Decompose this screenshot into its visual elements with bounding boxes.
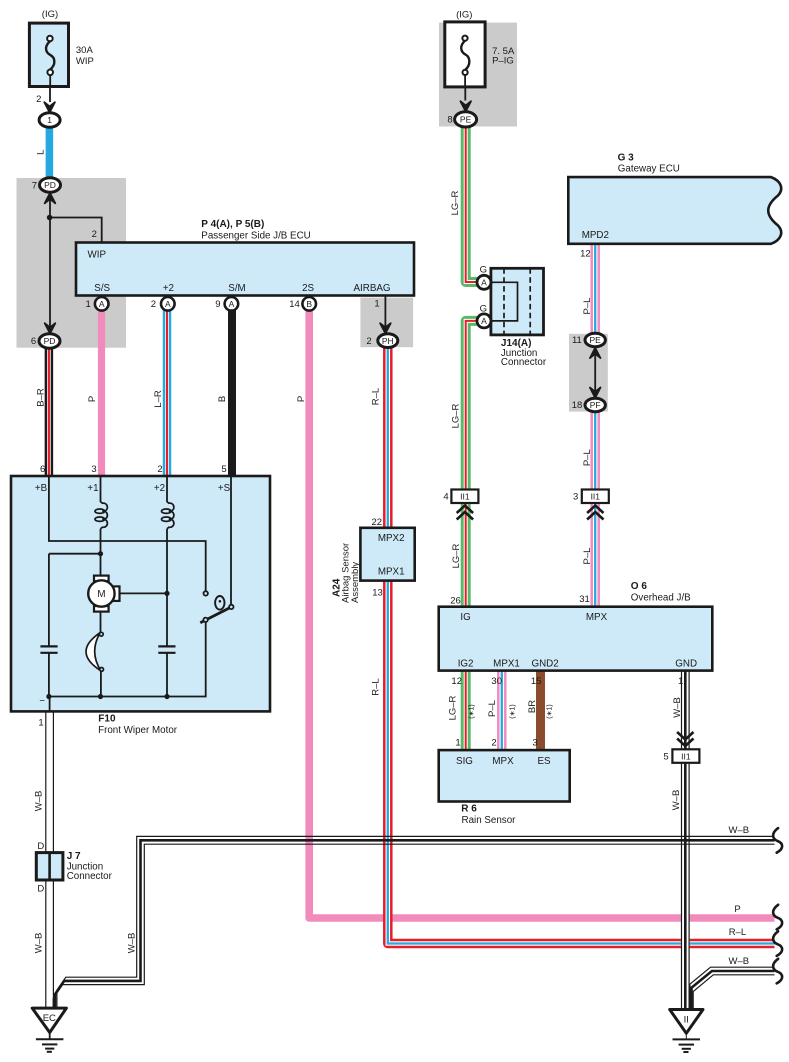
svg-text:1: 1 xyxy=(47,115,52,125)
svg-text:WIP: WIP xyxy=(88,250,107,261)
svg-text:2: 2 xyxy=(157,464,162,475)
svg-text:P–IG: P–IG xyxy=(492,55,514,66)
svg-text:11: 11 xyxy=(572,335,582,346)
svg-text:PE: PE xyxy=(590,335,602,345)
svg-text:W–B: W–B xyxy=(671,790,682,811)
svg-text:MPX1: MPX1 xyxy=(493,659,520,670)
svg-text:22: 22 xyxy=(372,517,383,528)
svg-text:15: 15 xyxy=(531,676,542,687)
svg-text:W–B: W–B xyxy=(672,697,683,718)
svg-text:PD: PD xyxy=(44,336,56,346)
svg-text:(∗1): (∗1) xyxy=(469,704,476,718)
svg-text:II1: II1 xyxy=(591,492,601,502)
svg-text:G 3: G 3 xyxy=(618,153,635,164)
svg-text:LG–R: LG–R xyxy=(447,695,458,720)
svg-text:(IG): (IG) xyxy=(456,10,472,21)
svg-text:31: 31 xyxy=(579,594,590,605)
svg-text:12: 12 xyxy=(451,676,462,687)
svg-text:S/M: S/M xyxy=(228,283,245,294)
svg-text:Front Wiper Motor: Front Wiper Motor xyxy=(98,725,178,736)
svg-text:2: 2 xyxy=(491,737,496,748)
svg-text:GND: GND xyxy=(675,659,697,670)
svg-text:(∗1): (∗1) xyxy=(510,704,517,718)
svg-text:1: 1 xyxy=(374,299,379,310)
svg-text:ES: ES xyxy=(537,756,551,767)
svg-text:B: B xyxy=(306,299,312,309)
svg-text:PE: PE xyxy=(460,115,472,125)
svg-text:A: A xyxy=(229,299,235,309)
svg-text:MPX: MPX xyxy=(492,756,514,767)
svg-text:J 7: J 7 xyxy=(67,851,81,862)
svg-text:II: II xyxy=(684,1015,689,1026)
svg-text:PH: PH xyxy=(382,336,394,346)
svg-text:MPX: MPX xyxy=(586,612,608,623)
svg-text:R 6: R 6 xyxy=(461,804,477,815)
svg-text:2: 2 xyxy=(366,336,371,347)
svg-text:A: A xyxy=(481,316,487,326)
svg-text:S/S: S/S xyxy=(94,283,110,294)
svg-text:9: 9 xyxy=(215,299,220,310)
svg-text:6: 6 xyxy=(40,464,45,475)
svg-text:5: 5 xyxy=(221,464,226,475)
svg-text:2: 2 xyxy=(36,94,41,105)
svg-text:WIP: WIP xyxy=(76,56,94,67)
svg-text:(∗1): (∗1) xyxy=(547,704,554,718)
svg-text:P: P xyxy=(87,396,98,402)
svg-text:Connector: Connector xyxy=(67,871,113,882)
svg-text:A: A xyxy=(481,278,487,288)
svg-text:12: 12 xyxy=(580,249,591,260)
svg-text:(IG): (IG) xyxy=(42,9,58,20)
svg-text:P–L: P–L xyxy=(582,298,593,315)
svg-text:3: 3 xyxy=(91,464,96,475)
svg-text:14: 14 xyxy=(289,299,300,310)
svg-text:W–B: W–B xyxy=(729,956,750,967)
svg-text:F10: F10 xyxy=(98,714,116,725)
svg-text:3: 3 xyxy=(532,737,537,748)
svg-text:LG–R: LG–R xyxy=(451,403,462,428)
svg-text:18: 18 xyxy=(572,400,583,411)
svg-text:30A: 30A xyxy=(76,45,94,56)
svg-text:AIRBAG: AIRBAG xyxy=(353,283,390,294)
svg-text:7: 7 xyxy=(32,180,37,191)
svg-text:Connector: Connector xyxy=(501,357,547,368)
svg-text:IG: IG xyxy=(460,612,470,623)
svg-text:P–L: P–L xyxy=(582,548,593,565)
svg-text:LG–R: LG–R xyxy=(450,190,461,215)
svg-text:2: 2 xyxy=(151,299,156,310)
svg-text:5: 5 xyxy=(663,752,668,763)
svg-text:Passenger Side J/B ECU: Passenger Side J/B ECU xyxy=(201,231,310,242)
svg-text:R–L: R–L xyxy=(729,927,746,938)
svg-text:W–B: W–B xyxy=(127,933,138,954)
svg-text:LG–R: LG–R xyxy=(451,543,462,568)
svg-text:BR: BR xyxy=(527,700,538,713)
svg-text:13: 13 xyxy=(372,587,383,598)
svg-text:O 6: O 6 xyxy=(631,581,648,592)
svg-text:8: 8 xyxy=(447,115,452,126)
svg-text:W–B: W–B xyxy=(729,825,750,836)
svg-text:MPX2: MPX2 xyxy=(378,533,405,544)
svg-text:W–B: W–B xyxy=(34,933,45,954)
svg-text:W–B: W–B xyxy=(34,791,45,812)
svg-text:1: 1 xyxy=(86,299,91,310)
svg-text:Overhead J/B: Overhead J/B xyxy=(631,593,691,604)
svg-text:2S: 2S xyxy=(302,283,314,294)
svg-text:PD: PD xyxy=(44,180,56,190)
svg-text:Rain Sensor: Rain Sensor xyxy=(462,815,517,826)
svg-text:M: M xyxy=(97,589,105,600)
svg-text:L–R: L–R xyxy=(153,390,164,408)
svg-text:R–L: R–L xyxy=(371,678,382,695)
svg-text:30: 30 xyxy=(491,676,502,687)
svg-text:P–L: P–L xyxy=(582,449,593,466)
svg-text:Assembly: Assembly xyxy=(350,562,361,603)
svg-text:II1: II1 xyxy=(460,492,470,502)
svg-text:3: 3 xyxy=(573,492,578,503)
svg-text:−: − xyxy=(39,696,45,707)
svg-text:1: 1 xyxy=(455,737,460,748)
svg-text:+2: +2 xyxy=(154,483,165,494)
svg-text:2: 2 xyxy=(92,229,97,240)
svg-text:A: A xyxy=(99,299,105,309)
svg-text:IG2: IG2 xyxy=(458,659,474,670)
svg-text:4: 4 xyxy=(443,492,448,503)
svg-text:+B: +B xyxy=(35,483,48,494)
svg-text:J14(A): J14(A) xyxy=(501,338,532,349)
svg-text:26: 26 xyxy=(450,595,461,606)
svg-text:D: D xyxy=(37,841,44,852)
svg-text:1: 1 xyxy=(678,676,683,687)
svg-text:P: P xyxy=(296,396,307,402)
svg-text:6: 6 xyxy=(31,336,36,347)
svg-text:G: G xyxy=(480,303,487,314)
svg-text:B: B xyxy=(217,396,228,402)
svg-text:P–L: P–L xyxy=(487,700,498,717)
svg-text:B–R: B–R xyxy=(36,388,47,407)
svg-text:+2: +2 xyxy=(163,283,174,294)
svg-text:P: P xyxy=(734,904,740,915)
svg-text:+1: +1 xyxy=(87,483,98,494)
svg-text:G: G xyxy=(480,264,487,275)
svg-text:MPX1: MPX1 xyxy=(378,567,405,578)
svg-text:+S: +S xyxy=(218,483,231,494)
svg-text:PF: PF xyxy=(590,400,601,410)
svg-text:R–L: R–L xyxy=(371,388,382,405)
svg-text:SIG: SIG xyxy=(456,756,473,767)
svg-text:A: A xyxy=(165,299,171,309)
svg-text:1: 1 xyxy=(38,718,43,729)
svg-text:EC: EC xyxy=(43,1013,56,1024)
svg-text:P 4(A), P 5(B): P 4(A), P 5(B) xyxy=(201,219,264,230)
svg-text:II1: II1 xyxy=(681,752,691,762)
svg-text:Gateway ECU: Gateway ECU xyxy=(618,163,680,174)
svg-text:MPD2: MPD2 xyxy=(582,230,609,241)
svg-text:L: L xyxy=(36,150,47,155)
svg-text:GND2: GND2 xyxy=(531,659,558,670)
svg-text:D: D xyxy=(37,884,44,895)
